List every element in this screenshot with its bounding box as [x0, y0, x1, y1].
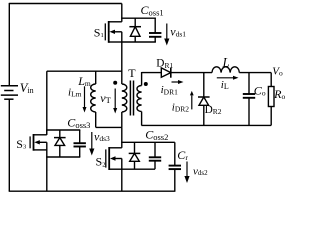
wire S3 drain to rail — [46, 130, 48, 135]
capacitor Coss2 — [154, 142, 156, 157]
wire node A vertical (S1 source to primary top) — [121, 32, 123, 84]
wire Lm top stub — [95, 71, 97, 84]
wire S2 source vertical — [121, 159, 123, 192]
transformer T secondary winding — [137, 72, 142, 112]
transistor S3 — [30, 134, 47, 151]
inductor L — [212, 67, 239, 73]
arrow iDR1 — [172, 81, 179, 83]
wire secondary bottom stub — [141, 112, 143, 126]
wire top rail from Vin+ to S1 drain — [9, 3, 122, 5]
diode DR1 — [161, 68, 171, 78]
wire secondary top rail (to DR1) — [142, 72, 162, 74]
diode DR2 — [203, 73, 205, 97]
arrow vds3 — [91, 132, 93, 149]
capacitor Coss1 — [154, 18, 156, 33]
wire S2 drop vertical — [121, 127, 123, 147]
wire S3 cell top rail — [46, 129, 80, 131]
arrow vds2 — [186, 162, 188, 177]
wire S2 cell top rail — [121, 141, 175, 143]
capacitor Cr — [174, 142, 176, 165]
wire left rail lower (Vin- side) — [8, 99, 10, 191]
transistor S1 — [105, 21, 122, 43]
arrow vT — [114, 89, 116, 109]
arrow iL — [217, 77, 233, 79]
wire S3 cell bottom rail — [46, 156, 80, 158]
transformer T primary winding — [122, 84, 127, 112]
node dot primary polarity — [113, 81, 117, 85]
arrow vds1 — [166, 24, 168, 39]
wire left rail upper (Vin+ side) — [8, 3, 10, 86]
wire Lm bottom stub — [95, 112, 97, 127]
wire S1 drain vertical — [121, 4, 123, 22]
capacitor Co — [248, 73, 250, 94]
wire S2 cell bottom rail — [121, 168, 155, 170]
capacitor Coss3 — [79, 130, 81, 143]
node dot secondary polarity — [144, 82, 148, 86]
wire output top rail (DR1 to L) — [171, 72, 212, 74]
wire output top rail (L to Ro) — [239, 72, 271, 74]
diode S3 body diode — [59, 130, 61, 138]
transformer T core bars — [130, 81, 133, 116]
wire S3 drop vertical — [46, 71, 48, 135]
wire bottom rail — [9, 190, 176, 192]
resistor Ro — [268, 73, 274, 126]
wire output bottom rail — [141, 124, 271, 126]
inductor Lm — [91, 84, 96, 112]
arrow iLm — [84, 86, 86, 107]
wire S1 cell bottom rail — [121, 41, 156, 43]
wire S1 cell top rail — [121, 17, 156, 19]
wire primary bottom stub — [121, 112, 123, 127]
transistor S2 — [106, 147, 122, 170]
svg-text:L: L — [222, 55, 230, 69]
svg-text:T: T — [128, 66, 136, 80]
arrow iDR2 — [191, 95, 193, 109]
diode S2 body diode — [134, 142, 136, 153]
diode S1 body diode — [134, 18, 136, 27]
wire primary bottom rail — [96, 126, 122, 128]
wire node A horizontal (to S3 leg, Lm tap) — [47, 70, 122, 72]
wire S3 source vertical — [46, 142, 48, 191]
voltage source Vin (battery) — [1, 86, 18, 100]
